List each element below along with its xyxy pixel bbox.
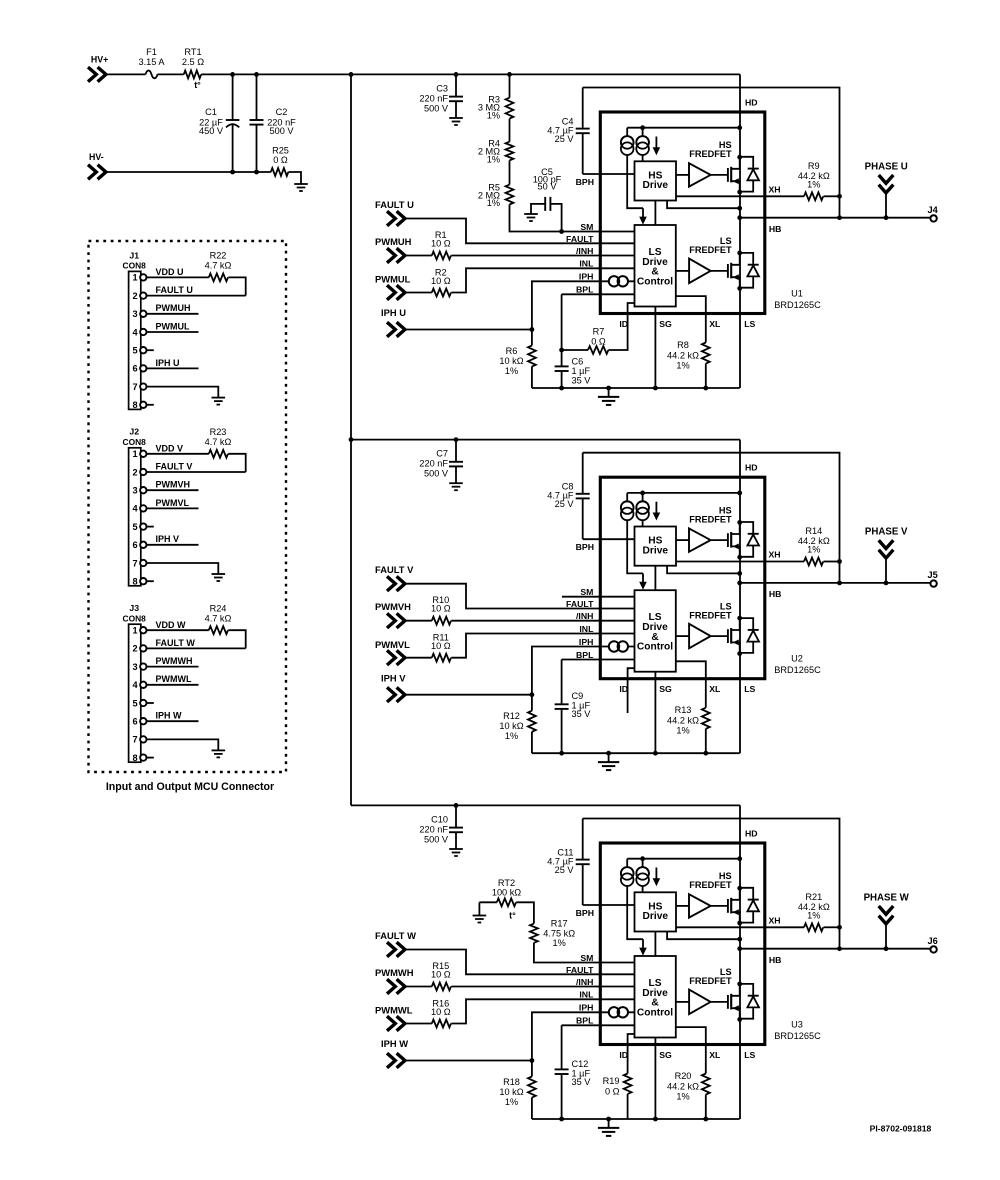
connector J3 pin 3 circle (140, 663, 146, 669)
junction phase stem (884, 946, 889, 951)
svg-text:PI-8702-091818: PI-8702-091818 (870, 1124, 932, 1134)
svg-text:XL: XL (709, 684, 721, 694)
svg-text:2: 2 (132, 644, 137, 654)
wire J1 pin5 stub (147, 349, 154, 351)
svg-text:8: 8 (132, 753, 137, 763)
svg-text:R17: R17 (551, 919, 568, 929)
wire J3 pin8 stub (147, 757, 154, 759)
connector J2 pin 3 circle (140, 487, 146, 493)
svg-text:4: 4 (132, 504, 138, 514)
resistor R22 (209, 274, 228, 282)
connector J1 pin 4 circle (140, 329, 146, 335)
wire buffer to LS gate (711, 1001, 728, 1003)
svg-text:SM: SM (580, 587, 593, 597)
svg-text:Drive: Drive (643, 911, 669, 922)
junction rail / XL resistor (703, 751, 708, 756)
connector J3 pin 2 circle (140, 645, 146, 651)
wire LS drive to buffer (676, 635, 689, 637)
wire PWM L to gate resistor (405, 657, 432, 659)
wire FAULT input (405, 584, 635, 609)
svg-text:PWMWL: PWMWL (156, 674, 192, 684)
wire phase feed vertical (350, 74, 352, 805)
svg-text:1: 1 (132, 273, 137, 283)
svg-text:IPH: IPH (579, 1003, 593, 1013)
resistor R5 (509, 160, 511, 184)
svg-text:R13: R13 (675, 705, 692, 715)
svg-text:SM: SM (580, 953, 593, 963)
svg-text:R25: R25 (272, 145, 289, 155)
wire HS drive to LS box (654, 566, 656, 591)
svg-text:10 kΩ: 10 kΩ (499, 356, 523, 366)
svg-text:50 V: 50 V (538, 182, 558, 192)
svg-text:C9: C9 (572, 691, 584, 701)
svg-text:SM: SM (580, 222, 593, 232)
junction sense / HD bus (737, 571, 742, 576)
svg-text:R8: R8 (677, 340, 689, 350)
wire HS drive to LS box (654, 201, 656, 226)
svg-text:10 kΩ: 10 kΩ (499, 1087, 523, 1097)
diode HS body diode (740, 522, 754, 534)
buffer HS gate driver triangle (689, 163, 711, 186)
wire R17 to SM (534, 943, 635, 963)
current sensor circles on IPH (609, 276, 619, 286)
junction HS drain (737, 155, 742, 160)
wire BPH (583, 538, 635, 540)
wire IPH to pin (532, 281, 635, 329)
connector J3 pin 4 circle (140, 682, 146, 688)
svg-text:Drive: Drive (643, 545, 669, 556)
wire HB phase line (740, 948, 931, 950)
op-amp IC U2 BRD1265C outline (600, 477, 765, 679)
current source right pair (642, 493, 644, 502)
junction rail / ground (606, 751, 611, 756)
junction HV- / C2 (254, 170, 259, 175)
svg-text:5: 5 (132, 522, 137, 532)
capacitor C8 (582, 453, 584, 494)
svg-text:220 nF: 220 nF (419, 459, 448, 469)
wire J3 pin6 IPH W (147, 720, 199, 722)
wire left current source to LS drive arrow (627, 886, 643, 939)
svg-text:FAULT W: FAULT W (375, 930, 416, 941)
svg-text:25 V: 25 V (555, 134, 575, 144)
wire J2 pin1 VDD V (147, 453, 209, 455)
svg-text:J6: J6 (927, 936, 937, 946)
svg-text:J2: J2 (129, 427, 139, 437)
IPH U connector chevrons (387, 322, 395, 337)
wire HD / half-bridge vertical (739, 74, 741, 388)
ground at J3 pin7 (212, 749, 226, 751)
svg-text:R21: R21 (805, 892, 822, 902)
svg-text:ID: ID (619, 684, 628, 694)
wire phase stem (885, 924, 887, 949)
svg-text:J4: J4 (927, 205, 938, 215)
wire node to R7 (562, 349, 588, 351)
wire J1 pin2 FAULT U (147, 295, 246, 297)
svg-text:8: 8 (132, 577, 137, 587)
svg-text:10 Ω: 10 Ω (431, 970, 451, 980)
svg-text:FAULT: FAULT (566, 599, 594, 609)
diode LS body diode (740, 253, 754, 265)
IPH W connector chevrons (387, 1053, 395, 1068)
svg-text:BPL: BPL (576, 285, 594, 295)
connector J3 pin 7 circle (140, 736, 146, 742)
resistor R24 (209, 626, 228, 634)
svg-text:1%: 1% (487, 198, 500, 208)
buffer HS gate driver triangle (689, 894, 711, 917)
junction HS drain (737, 520, 742, 525)
wire J2 pin7 to ground (147, 563, 219, 574)
svg-text:44.2 kΩ: 44.2 kΩ (667, 716, 699, 726)
junction bus / C3 (454, 72, 459, 77)
FAULT V connector chevrons (387, 576, 395, 591)
wire buffer to HS gate (711, 905, 728, 907)
resistor R3 (509, 74, 511, 97)
wire R25 to ground (288, 172, 301, 184)
svg-text:1%: 1% (807, 545, 820, 555)
svg-text:10 Ω: 10 Ω (431, 276, 451, 286)
svg-text:10 Ω: 10 Ω (431, 641, 451, 651)
resistor R17 (530, 924, 538, 943)
junction HS drain (737, 886, 742, 891)
wire left current source to LS drive arrow (627, 520, 643, 573)
resistor R1 (432, 252, 451, 260)
svg-text:J3: J3 (129, 603, 139, 613)
transistor LS FREDFET (727, 995, 729, 1009)
svg-text:SG: SG (659, 1050, 672, 1060)
wire HS drive to buffer (676, 905, 689, 907)
wire BPH (583, 173, 635, 175)
wire HV+ to fuse (106, 73, 146, 75)
connector J2 pin 5 circle (140, 523, 146, 529)
wire J1 pin3 PWMUH (147, 313, 199, 315)
svg-text:FREDFET: FREDFET (689, 245, 732, 255)
junction XH / boot vertical (837, 194, 842, 199)
junction phase stem (884, 215, 889, 220)
svg-text:C6: C6 (572, 357, 584, 367)
svg-text:/INH: /INH (576, 611, 593, 621)
wire FAULT input (405, 219, 635, 244)
connector J3 body (129, 624, 141, 762)
ground at C10 (449, 848, 463, 850)
svg-text:3.15 A: 3.15 A (138, 57, 165, 67)
PHASE U connector chevrons (879, 175, 894, 183)
svg-text:4.7 kΩ: 4.7 kΩ (205, 437, 232, 447)
svg-text:BPL: BPL (576, 1016, 594, 1026)
block HS Drive (635, 892, 677, 931)
wire BPL drop to node (561, 294, 563, 350)
arrow current direction indicator (655, 868, 657, 879)
junction LS drain (737, 982, 742, 987)
wire PWM H to gate resistor (405, 986, 432, 988)
svg-text:6: 6 (132, 717, 137, 727)
wire HS drive sense to bus (667, 566, 740, 574)
capacitor C7 (455, 440, 457, 462)
svg-text:PWMUL: PWMUL (375, 274, 411, 285)
svg-text:PWMVH: PWMVH (375, 601, 411, 612)
connector J1 pin 2 circle (140, 292, 146, 298)
wire RT2 to R17 (516, 902, 534, 923)
svg-text:R6: R6 (506, 346, 518, 356)
current source left pair (626, 859, 628, 868)
transistor HS FREDFET (727, 899, 729, 913)
svg-text:J1: J1 (129, 250, 139, 260)
resistor R18 (531, 1061, 533, 1077)
svg-text:5: 5 (132, 346, 137, 356)
svg-text:IPH: IPH (579, 272, 593, 282)
PWMWL connector chevrons (387, 1016, 395, 1031)
svg-text:IPH V: IPH V (381, 672, 406, 683)
svg-text:FAULT V: FAULT V (156, 461, 193, 471)
wire bootstrap line to phase (583, 88, 840, 218)
svg-text:F1: F1 (146, 47, 157, 57)
svg-text:10 kΩ: 10 kΩ (499, 721, 523, 731)
svg-text:INL: INL (579, 259, 594, 269)
svg-text:1 µF: 1 µF (572, 366, 591, 376)
diode HS body diode (740, 888, 754, 900)
connector J3 pin 6 circle (140, 718, 146, 724)
svg-text:BPH: BPH (576, 177, 594, 187)
svg-text:2: 2 (132, 467, 137, 477)
svg-text:500 V: 500 V (424, 469, 449, 479)
wire R to boot vertical (824, 561, 840, 563)
PWMWH connector chevrons (387, 979, 395, 994)
svg-text:C1: C1 (205, 107, 217, 117)
junction rail / SG (653, 386, 658, 391)
wire HB phase line (740, 217, 931, 219)
connector J1 pin 1 circle (140, 274, 146, 280)
wire phase stem (885, 558, 887, 583)
svg-text:R24: R24 (210, 603, 227, 613)
wire XH (676, 561, 804, 563)
wire HS drive to LS box (654, 932, 656, 957)
connector J2 pin 8 circle (140, 578, 146, 584)
svg-text:1%: 1% (807, 910, 820, 920)
svg-text:R18: R18 (503, 1077, 520, 1087)
svg-text:R23: R23 (210, 427, 227, 437)
svg-text:Drive: Drive (643, 180, 669, 191)
capacitor C1 (232, 74, 234, 119)
wire LS drive to buffer (676, 1001, 689, 1003)
svg-text:R9: R9 (808, 161, 820, 171)
wire HS drive sense to bus (667, 201, 740, 209)
arrow current direction indicator (655, 137, 657, 148)
resistor R10 (432, 617, 451, 625)
svg-text:HD: HD (745, 828, 758, 838)
ground at rail (608, 388, 610, 397)
junction HS source (737, 921, 742, 926)
svg-text:1%: 1% (487, 111, 500, 121)
wire buffer to HS gate (711, 174, 728, 176)
svg-text:IPH W: IPH W (156, 711, 183, 721)
svg-text:PWMVH: PWMVH (156, 480, 191, 490)
junction XH / boot vertical (837, 925, 842, 930)
diode LS body diode (740, 618, 754, 630)
junction HV- / C1 (230, 170, 235, 175)
wire fuse to RT1 (158, 73, 184, 75)
connector J1 body (129, 271, 141, 409)
svg-text:7: 7 (132, 558, 137, 568)
svg-text:35 V: 35 V (572, 376, 592, 386)
wire J2 pin6 IPH V (147, 544, 199, 546)
wire IPH to pin (532, 647, 635, 695)
svg-text:1: 1 (132, 626, 137, 636)
svg-text:ID: ID (619, 1050, 628, 1060)
thermistor RT2 (497, 898, 516, 906)
wire J2 pin3 PWMVH (147, 489, 199, 491)
FAULT U connector chevrons (387, 211, 395, 226)
svg-text:C2: C2 (276, 107, 288, 117)
capacitor C4 (582, 88, 584, 129)
svg-text:IPH U: IPH U (156, 358, 180, 368)
junction supply / right current source (640, 856, 645, 861)
svg-text:FREDFET: FREDFET (689, 149, 732, 159)
wire IPH input (405, 694, 532, 696)
junction IPH input / divider (530, 327, 535, 332)
svg-text:PHASE V: PHASE V (865, 527, 908, 538)
connector J1 pin 6 circle (140, 365, 146, 371)
svg-text:6: 6 (132, 540, 137, 550)
arrow into LS box (642, 208, 644, 217)
arrow current direction indicator (655, 502, 657, 513)
wire HD / half-bridge vertical (739, 805, 741, 1119)
svg-text:PHASE W: PHASE W (864, 893, 910, 904)
ground at rail (608, 1119, 610, 1128)
connector J2 pin 7 circle (140, 560, 146, 566)
wire XH (676, 195, 804, 197)
svg-text:35 V: 35 V (572, 709, 592, 719)
wire buffer to HS gate (711, 539, 728, 541)
buffer LS gate driver triangle (689, 624, 711, 649)
wire SG (654, 1038, 656, 1120)
wire XL (676, 296, 706, 342)
current source right pair (642, 128, 644, 137)
svg-text:10 Ω: 10 Ω (431, 604, 451, 614)
junction sense / HD bus (737, 937, 742, 942)
PWMVL connector chevrons (387, 650, 395, 665)
wire ID to R19 (628, 1034, 635, 1074)
resistor R9 (804, 192, 823, 200)
wire buffer to LS gate (711, 635, 728, 637)
svg-text:CON8: CON8 (123, 437, 147, 447)
svg-text:500 V: 500 V (424, 834, 449, 844)
junction phase stem (884, 581, 889, 586)
wire /INH (451, 255, 634, 257)
junction bus / R3 chain (507, 72, 512, 77)
wire HS drive to buffer (676, 174, 689, 176)
junction XH / boot vertical (837, 559, 842, 564)
wire HV+ bus (201, 73, 740, 75)
svg-text:IPH U: IPH U (381, 307, 406, 318)
svg-text:4: 4 (132, 327, 138, 337)
capacitor C5 (531, 204, 545, 214)
svg-text:PWMWH: PWMWH (156, 656, 193, 666)
wire SG (654, 307, 656, 389)
svg-text:U3: U3 (791, 1019, 803, 1029)
resistor R23 (209, 450, 228, 458)
svg-text:FAULT U: FAULT U (156, 285, 193, 295)
wire J2 pin2 FAULT V (147, 471, 246, 473)
wire BPH (583, 904, 635, 906)
wire R23 to pin2 net (228, 454, 245, 472)
svg-text:1%: 1% (676, 726, 689, 736)
wire J3 pin1 VDD W (147, 629, 209, 631)
wire J2 pin8 stub (147, 580, 154, 582)
svg-text:100 kΩ: 100 kΩ (492, 887, 521, 897)
connector J2 pin 1 circle (140, 451, 146, 457)
resistor R2 (432, 289, 451, 297)
svg-text:500 V: 500 V (424, 103, 449, 113)
wire SM stub (562, 596, 635, 598)
svg-text:PHASE U: PHASE U (865, 162, 908, 173)
svg-text:VDD U: VDD U (156, 267, 184, 277)
junction LS drain (737, 616, 742, 621)
svg-text:FAULT: FAULT (566, 234, 594, 244)
svg-text:1%: 1% (676, 361, 689, 371)
wire R to boot vertical (824, 195, 840, 197)
svg-text:FREDFET: FREDFET (689, 976, 732, 986)
svg-text:C10: C10 (431, 814, 448, 824)
wire IPH input (405, 329, 532, 331)
svg-text:C12: C12 (572, 1059, 589, 1069)
svg-text:2.5 Ω: 2.5 Ω (182, 57, 204, 67)
svg-text:FREDFET: FREDFET (689, 514, 732, 524)
svg-text:4.7 kΩ: 4.7 kΩ (205, 261, 232, 271)
svg-text:XH: XH (769, 550, 781, 560)
diode HS body diode (740, 157, 754, 169)
junction rail / XL resistor (703, 1117, 708, 1122)
wire phase stem (885, 193, 887, 218)
svg-text:BRD1265C: BRD1265C (774, 1031, 821, 1041)
arrow into LS box (642, 939, 644, 948)
wire INL (451, 999, 634, 1023)
svg-text:PWMUL: PWMUL (156, 321, 190, 331)
wire J1 pin4 PWMUL (147, 331, 199, 333)
svg-text:HV-: HV- (89, 152, 104, 162)
svg-text:XH: XH (769, 185, 781, 195)
junction HV+ bus / C1 (230, 72, 235, 77)
connector J2 pin 6 circle (140, 542, 146, 548)
junction phase / boot vertical (837, 215, 842, 220)
transistor LS FREDFET (727, 629, 729, 643)
junction LS source (737, 1017, 742, 1022)
ground at J1 pin7 (212, 397, 226, 399)
junction feed / V bus (349, 437, 354, 442)
wire J3 pin4 PWMWL (147, 684, 199, 686)
wire ground rail (532, 1118, 740, 1120)
junction phase / boot vertical (837, 581, 842, 586)
svg-text:Control: Control (637, 277, 673, 288)
wire current source supply line (627, 127, 740, 129)
svg-text:1%: 1% (676, 1092, 689, 1102)
svg-text:R7: R7 (593, 327, 605, 337)
svg-text:U1: U1 (791, 288, 803, 298)
junction supply / right current source (640, 125, 645, 130)
wire PWM L to gate resistor (405, 1023, 432, 1025)
junction rail / ground (606, 1117, 611, 1122)
op-amp IC U3 BRD1265C outline (600, 843, 765, 1045)
svg-text:LS: LS (744, 319, 755, 329)
svg-text:FREDFET: FREDFET (689, 610, 732, 620)
fuse F1 (146, 71, 158, 79)
capacitor C2 (256, 74, 258, 119)
wire left current source to LS drive arrow (627, 155, 643, 208)
wire J3 pin7 to ground (147, 739, 219, 750)
svg-text:1%: 1% (505, 366, 518, 376)
svg-text:1%: 1% (487, 155, 500, 165)
connector J2 pin 2 circle (140, 469, 146, 475)
resistor R6 (531, 330, 533, 346)
PWMUH connector chevrons (387, 248, 395, 263)
